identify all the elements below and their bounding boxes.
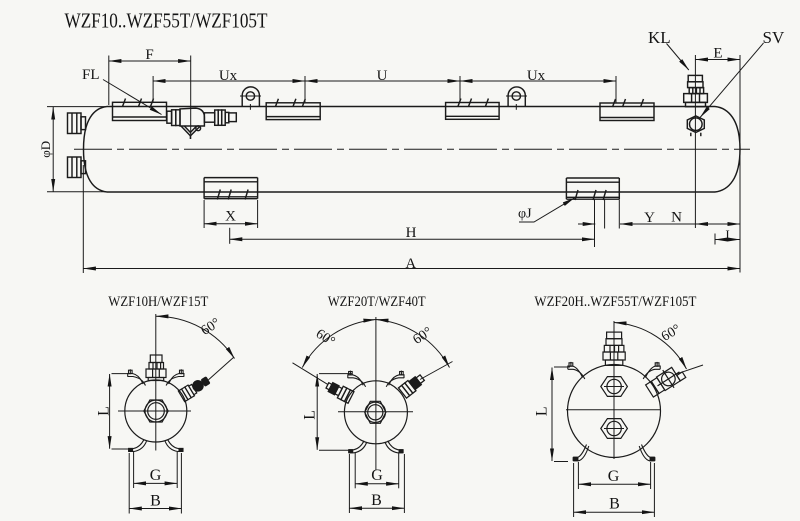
lifting lug 1 (240, 87, 261, 110)
leader phiJ (519, 198, 575, 222)
left valve v2 (324, 380, 354, 404)
dim N (695, 223, 740, 225)
tank right dome (715, 107, 740, 193)
center horizontal v3 (566, 409, 660, 411)
svg-text:L: L (301, 410, 318, 420)
dim E (695, 59, 740, 61)
pad 2 (266, 99, 320, 120)
upper hex v3 (601, 377, 628, 397)
center horizontal v1 (118, 410, 191, 412)
svg-text:G: G (371, 467, 383, 484)
dim B v2 (349, 507, 404, 509)
lifting lug 2 (506, 87, 527, 110)
svg-text:B: B (609, 496, 620, 513)
svg-text:WZF20T/WZF40T: WZF20T/WZF40T (328, 294, 426, 310)
hooks v1 (128, 369, 184, 451)
dim G v2 (355, 483, 399, 485)
svg-text:B: B (150, 493, 161, 510)
svg-text:G: G (150, 467, 162, 484)
dim F (109, 60, 191, 62)
dim B v1 (129, 508, 181, 510)
center vertical v2 (375, 317, 377, 470)
valve FL assembly (167, 108, 236, 139)
svg-text:E: E (713, 46, 722, 62)
svg-text:WZF10H/WZF15T: WZF10H/WZF15T (108, 294, 208, 310)
svg-text:FL: FL (82, 67, 100, 83)
pad 4 (600, 99, 654, 121)
dim X (204, 223, 258, 225)
center vertical v1 (155, 314, 157, 451)
svg-text:Ux: Ux (219, 68, 238, 84)
left plug upper (68, 113, 86, 134)
svg-text:U: U (377, 68, 388, 84)
left plug lower (68, 157, 86, 178)
right valve v2 (398, 372, 426, 398)
svg-text:Y: Y (644, 210, 655, 226)
shell circle v3 (568, 365, 661, 458)
tank left dome (84, 107, 108, 193)
angled valve v1 (178, 375, 211, 402)
svg-text:N: N (671, 210, 682, 226)
foot left (204, 178, 258, 200)
left end extension line (82, 165, 84, 273)
dim B v3 (574, 511, 655, 513)
svg-text:φJ: φJ (518, 207, 532, 222)
dim H (230, 238, 595, 240)
angle diagonal v1 (209, 357, 235, 380)
foot right (566, 178, 619, 200)
KL/SV center line (694, 55, 696, 228)
angle diagonal v2 left (293, 363, 328, 385)
lower hex v3 (601, 419, 628, 439)
svg-text:I: I (725, 227, 729, 242)
angle diagonal v3 (677, 365, 703, 374)
fitting KL (684, 75, 708, 106)
svg-text:A: A (405, 256, 416, 272)
angle arc v2 right (376, 320, 450, 368)
tank center line (74, 148, 750, 150)
svg-text:WZF10..WZF55T/WZF105T: WZF10..WZF55T/WZF105T (65, 9, 268, 33)
top fitting v1 (146, 355, 166, 381)
shell circle v1 (125, 380, 187, 442)
dim U (305, 80, 460, 82)
hooks v3 (568, 362, 660, 461)
hooks v2 (348, 371, 404, 453)
tank shell top line (107, 106, 715, 108)
angle diagonal v2 right (420, 362, 453, 380)
dim G v3 (578, 483, 650, 485)
dim Y (outside arrows) (578, 223, 595, 225)
dim I (715, 239, 740, 241)
center vertical v3 (613, 321, 615, 459)
dim Ux right (460, 80, 616, 82)
svg-text:G: G (608, 468, 620, 485)
svg-text:WZF20H..WZF55T/WZF105T: WZF20H..WZF55T/WZF105T (534, 294, 696, 310)
pad 1 (113, 99, 167, 121)
svg-text:KL: KL (648, 28, 671, 47)
svg-text:H: H (406, 225, 417, 241)
top fitting v3 (603, 332, 625, 365)
svg-text:φD: φD (38, 141, 53, 158)
center hex v2 (365, 401, 386, 423)
dim Ux left (153, 80, 305, 82)
angle arc v3 (614, 323, 687, 370)
leader FL (103, 80, 162, 115)
dim L v3 (551, 368, 553, 462)
svg-text:L: L (96, 406, 113, 416)
leader SV (700, 43, 763, 117)
svg-text:L: L (534, 406, 551, 416)
svg-text:X: X (225, 209, 236, 225)
valve SV hex (687, 116, 704, 136)
dim A (83, 268, 740, 270)
angle arc v2 left (302, 320, 376, 368)
center hex v1 (144, 400, 168, 422)
right end extension line (739, 55, 741, 273)
shell circle v2 (344, 381, 407, 444)
angle arc v1 (156, 316, 235, 358)
right valve v3 (644, 362, 687, 400)
dim L v2 (316, 374, 318, 450)
center horizontal v2 (338, 411, 413, 413)
tank shell bottom line (107, 191, 715, 193)
svg-text:SV: SV (763, 28, 785, 47)
svg-text:Ux: Ux (527, 68, 546, 84)
leader KL (667, 44, 689, 71)
dim L v1 (109, 374, 111, 449)
pad 3 (446, 99, 500, 120)
svg-text:F: F (145, 47, 153, 63)
dim phiD (52, 107, 54, 192)
svg-text:B: B (371, 492, 382, 509)
dim G v1 (134, 482, 178, 484)
